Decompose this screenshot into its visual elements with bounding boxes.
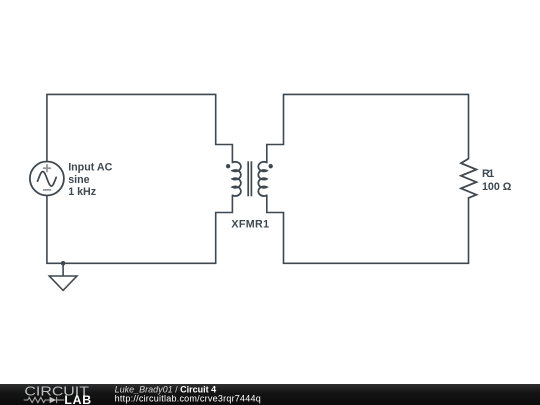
wire: right loop top <box>267 94 469 162</box>
label R1 <box>482 168 512 193</box>
transformer core <box>248 161 251 196</box>
svg-text:LAB: LAB <box>64 393 91 405</box>
svg-text:R1: R1 <box>482 168 494 180</box>
sine waveform glyph <box>38 172 57 187</box>
node GND junction dot <box>61 261 66 266</box>
wire: right loop bottom <box>267 195 469 263</box>
svg-text:100 Ω: 100 Ω <box>482 181 512 193</box>
polarity marks + and - <box>43 164 51 190</box>
logo squiggle resistor <box>24 397 64 403</box>
svg-text:XFMR1: XFMR1 <box>231 219 269 231</box>
logo diode triangle <box>50 397 57 403</box>
svg-text:sine: sine <box>68 174 89 186</box>
transformer XFMR1 left winding <box>232 162 241 196</box>
voltage source V1 <box>30 162 64 196</box>
svg-text:http://circuitlab.com/crve3rqr: http://circuitlab.com/crve3rqr7444q <box>115 394 261 404</box>
wire: left loop bottom <box>47 195 233 263</box>
ground <box>49 263 77 290</box>
label V1 value <box>68 162 112 199</box>
footer bar <box>0 384 540 405</box>
phase dot right <box>269 164 273 168</box>
source body circle <box>30 162 64 196</box>
wire: left loop top <box>47 94 233 162</box>
transformer XFMR1 right winding <box>258 162 267 196</box>
svg-text:Input AC: Input AC <box>68 162 112 174</box>
ground triangle <box>49 276 77 290</box>
svg-text:1 kHz: 1 kHz <box>68 186 96 198</box>
phase dot left <box>226 164 230 168</box>
ground stem <box>62 263 64 276</box>
resistor R1 <box>461 159 476 198</box>
